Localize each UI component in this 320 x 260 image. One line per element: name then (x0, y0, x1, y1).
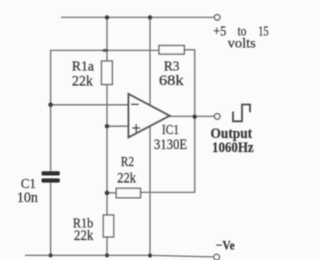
svg-text:68k: 68k (159, 73, 185, 89)
svg-text:1060Hz: 1060Hz (212, 140, 254, 156)
svg-text:3130E: 3130E (154, 137, 187, 153)
svg-text:10n: 10n (17, 190, 38, 206)
svg-text:−Ve: −Ve (216, 237, 235, 252)
svg-text:R1a: R1a (72, 59, 94, 74)
svg-text:15: 15 (258, 24, 269, 39)
svg-text:IC1: IC1 (162, 122, 179, 137)
svg-text:R3: R3 (164, 59, 180, 74)
svg-text:22k: 22k (72, 73, 94, 89)
svg-text:22k: 22k (74, 228, 94, 244)
svg-text:volts: volts (228, 36, 256, 51)
svg-text:+5: +5 (213, 24, 226, 39)
svg-text:22k: 22k (117, 171, 137, 187)
svg-text:R2: R2 (121, 154, 134, 169)
svg-text:C1: C1 (21, 176, 36, 191)
